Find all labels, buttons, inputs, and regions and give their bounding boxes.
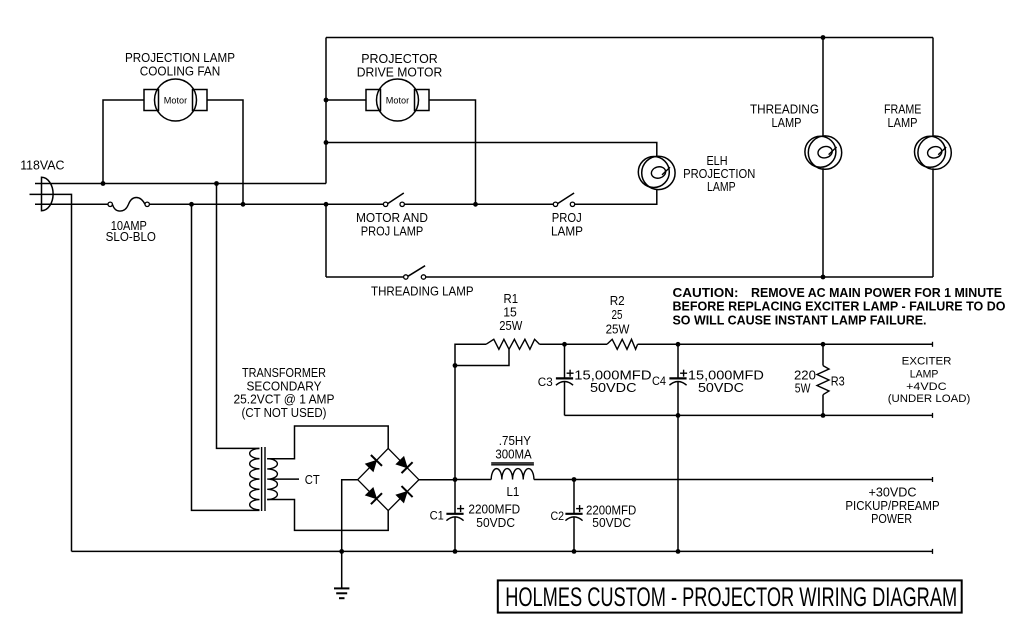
wire secondary top to bridge top [267, 426, 388, 459]
svg-text:(CT NOT USED): (CT NOT USED) [242, 405, 327, 420]
wire threading-lamp switch to frame lamp branch bottom [426, 276, 933, 278]
resistor R2 [607, 339, 638, 349]
svg-text:R2: R2 [610, 293, 625, 308]
title box [498, 580, 962, 612]
terminal tick +30VDC [932, 477, 934, 482]
wire bridge output to L1 [455, 479, 491, 481]
bridge rectifier BR1 diamond [358, 448, 419, 510]
wire AC hot: plug to projector box left edge [35, 183, 326, 185]
node junction C2 to ground rail [572, 549, 577, 554]
node junction on AC hot at cooling fan left branch [101, 181, 106, 186]
node junction top rail to threading lamp branch [821, 35, 826, 40]
wire frame lamp branch upper [932, 38, 934, 137]
svg-text:25: 25 [612, 307, 623, 322]
diode D4 lower-right [396, 486, 412, 502]
capacitor C2 symbol [565, 505, 583, 520]
switch S3 THREADING LAMP [404, 266, 426, 279]
resistor R3 [817, 366, 829, 395]
node junction C1 to ground rail [453, 549, 458, 554]
node junction AC neutral to transformer primary bottom [189, 202, 194, 207]
wire R3 top [822, 344, 824, 365]
wire box edge to ELH lamp top [326, 143, 657, 157]
wire C1 top [454, 480, 456, 514]
wire cooling fan right branch [207, 100, 243, 204]
capacitor C1 symbol [446, 505, 464, 520]
svg-text:(UNDER LOAD): (UNDER LOAD) [888, 393, 971, 405]
transformer T1 primary winding [250, 448, 260, 509]
svg-text:C4: C4 [652, 374, 666, 388]
wire ground rail [72, 550, 933, 552]
svg-text:LAMP: LAMP [888, 115, 918, 130]
wire drive motor right branch down to switch wire [429, 100, 476, 204]
node junction rail to R3 [821, 342, 826, 347]
wire riser bridge output to R1 [454, 366, 456, 480]
diode D1 upper-left [366, 455, 382, 471]
svg-text:C1: C1 [430, 508, 444, 522]
wire projector box top rail [326, 37, 933, 39]
wire R1 tap to zigzag mid [455, 349, 509, 365]
wire motor switch to proj-lamp switch [404, 203, 553, 205]
wire projector box left edge lower [325, 204, 327, 277]
wire bridge positive output [419, 479, 455, 481]
wire C2 bottom [573, 517, 575, 552]
svg-text:50VDC: 50VDC [590, 380, 637, 395]
svg-text:LAMP: LAMP [551, 224, 583, 239]
node junction rail to C3 [562, 342, 567, 347]
inductor L1 winding [491, 469, 534, 480]
switch S1 MOTOR AND PROJ LAMP [383, 193, 404, 207]
svg-text:LAMP: LAMP [707, 179, 736, 194]
terminal tick ground rail end [932, 549, 934, 554]
svg-text:+4VDC: +4VDC [906, 381, 947, 393]
terminal tick exciter positive [932, 342, 934, 347]
resistor R1 [486, 339, 540, 349]
node junction cooling fan right branch to neutral [241, 202, 246, 207]
lamp symbol DS1 ELH projection lamp [638, 156, 675, 189]
wire C3 top [564, 344, 566, 378]
svg-text:25W: 25W [499, 318, 523, 333]
lamp symbol DS2 threading lamp [805, 136, 842, 169]
motor B2 projector drive motor [366, 79, 429, 121]
svg-text:LAMP: LAMP [910, 368, 939, 380]
ground symbol [334, 551, 349, 598]
svg-text:50VDC: 50VDC [592, 515, 631, 530]
wire R1 left end down to tap junction [455, 344, 486, 365]
node junction AC hot to transformer primary top [214, 181, 219, 186]
node junction C4 to negative rail [676, 413, 681, 418]
wire AC hot down to transformer primary top [217, 184, 260, 449]
svg-text:Motor: Motor [164, 95, 187, 106]
wire C3 bottom [564, 381, 566, 415]
wire AC neutral: plug to fuse [35, 203, 108, 205]
wire threading lamp branch upper [822, 38, 824, 137]
wire C4 bottom [677, 381, 679, 415]
node junction bridge output / C1 / R1 riser [453, 477, 458, 482]
node junction at ground rail x678 [676, 549, 681, 554]
wire C2 top [573, 480, 575, 514]
node junction drive motor branch to switched line [473, 202, 478, 207]
node junction R1 tap [453, 363, 458, 368]
wire cooling fan left branch [103, 100, 144, 184]
wire frame lamp branch lower [932, 168, 934, 277]
wire C4 negative rail down to ground rail [677, 415, 679, 551]
svg-text:R3: R3 [831, 374, 845, 389]
wire box bottom rail to threading-lamp switch [326, 276, 404, 278]
svg-text:SO WILL CAUSE INSTANT LAMP FAI: SO WILL CAUSE INSTANT LAMP FAILURE. [673, 312, 927, 327]
node junction rail to C2 [572, 477, 577, 482]
fuse F1 10AMP SLO-BLO [108, 197, 149, 211]
node junction rail to C4 [676, 342, 681, 347]
switch S2 PROJ LAMP [553, 193, 574, 207]
AC plug 118VAC [42, 177, 54, 210]
wire C4 top [677, 344, 679, 378]
diode D3 lower-left [366, 488, 382, 504]
svg-text:300MA: 300MA [495, 447, 532, 462]
wire negative rail C3 to exciter terminal [565, 414, 933, 416]
wire AC middle prong to left ground rail [30, 194, 72, 551]
svg-text:C3: C3 [538, 375, 553, 389]
svg-text:PROJ LAMP: PROJ LAMP [361, 224, 424, 239]
svg-text:THREADING LAMP: THREADING LAMP [371, 284, 474, 299]
node junction neutral to box lower-left edge [324, 202, 329, 207]
capacitor C4 symbol [669, 370, 687, 386]
svg-text:LAMP: LAMP [772, 115, 802, 130]
transformer T1 core [262, 447, 265, 511]
wire proj-lamp switch to ELH lamp bottom [575, 189, 657, 204]
wire threading lamp branch lower [822, 168, 824, 277]
svg-text:118VAC: 118VAC [20, 158, 64, 173]
svg-text:L1: L1 [506, 484, 519, 499]
svg-text:50VDC: 50VDC [698, 380, 744, 395]
svg-text:SLO-BLO: SLO-BLO [106, 229, 156, 244]
node junction box left edge to ELH lamp wire [324, 140, 329, 145]
node junction box left edge to drive motor [324, 98, 329, 103]
node junction R3 to negative rail [821, 413, 826, 418]
wire bridge negative to ground rail [342, 480, 358, 552]
capacitor C3 symbol [556, 370, 574, 386]
svg-text:Motor: Motor [386, 95, 409, 106]
svg-text:EXCITER: EXCITER [902, 355, 952, 367]
wire fuse to motor-switch [149, 203, 383, 205]
node junction threading lamp branch to bottom rail [821, 275, 826, 280]
svg-text:50VDC: 50VDC [476, 515, 515, 530]
wire AC neutral down to transformer primary bottom [192, 204, 260, 510]
wire secondary bottom to bridge bottom [267, 500, 388, 531]
inductor L1 core [491, 463, 534, 465]
svg-text:HOLMES CUSTOM - PROJECTOR WIRI: HOLMES CUSTOM - PROJECTOR WIRING DIAGRAM [505, 582, 957, 612]
terminal tick exciter negative [932, 413, 934, 418]
transformer T1 secondary winding [267, 459, 277, 500]
wire projector box left edge upper [325, 38, 327, 184]
svg-text:POWER: POWER [871, 511, 912, 526]
svg-text:25W: 25W [606, 322, 630, 337]
svg-text:C2: C2 [551, 509, 565, 523]
wire drive motor left feed [326, 99, 366, 101]
svg-text:COOLING FAN: COOLING FAN [140, 64, 221, 79]
wire R3 bottom [822, 395, 824, 416]
motor B1 projection lamp cooling fan [144, 79, 207, 121]
node junction bridge negative at ground rail [339, 549, 344, 554]
svg-text:5W: 5W [795, 381, 811, 396]
lamp symbol DS3 frame lamp [915, 136, 952, 169]
wire center tap stub [272, 478, 299, 480]
wire L1 to +30VDC terminal [534, 479, 933, 481]
wire R2 to exciter terminal [638, 343, 933, 345]
svg-text:DRIVE MOTOR: DRIVE MOTOR [357, 65, 443, 80]
diode D2 upper-right [396, 457, 412, 473]
svg-text:CT: CT [305, 472, 320, 487]
wire R1 to R2 [540, 343, 608, 345]
wire C1 bottom [454, 517, 456, 552]
